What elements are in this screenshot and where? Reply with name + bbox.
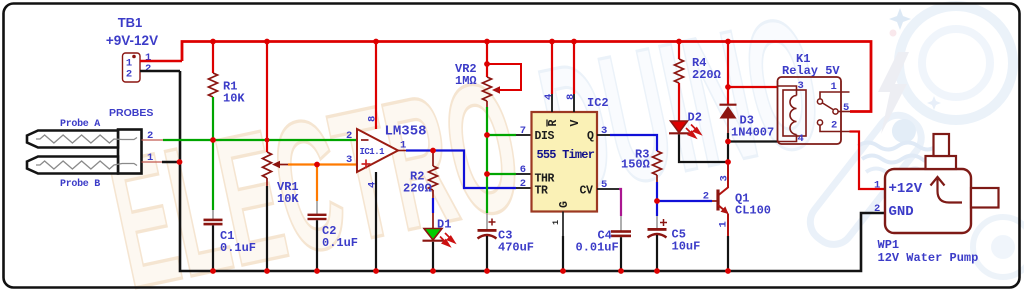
svg-text:1N4007: 1N4007: [731, 126, 774, 140]
capacitor C5: [648, 219, 701, 271]
diode D3 1N4007: [720, 87, 775, 140]
LED D1: [423, 218, 455, 272]
svg-text:555 Timer: 555 Timer: [537, 148, 595, 162]
wire 555 pin4 to +V: [551, 42, 553, 95]
wire +V to D3: [727, 42, 729, 88]
wire D3 anode to coil pin4 and collector node: [727, 133, 729, 162]
capacitor C1: [204, 219, 257, 271]
svg-text:2: 2: [126, 69, 132, 81]
svg-text:CV: CV: [580, 185, 594, 198]
wire node to C5: [656, 201, 658, 216]
svg-text:Probe A: Probe A: [60, 118, 100, 130]
svg-text:1: 1: [551, 220, 561, 225]
LED D2: [669, 111, 702, 138]
wire probe pin2: [142, 139, 165, 141]
svg-text:WP1: WP1: [878, 238, 900, 252]
svg-text:R: R: [547, 120, 560, 127]
wire op-amp output pin1: [398, 150, 406, 152]
node probe sense net junctions: [177, 137, 270, 165]
svg-text:0.1uF: 0.1uF: [322, 236, 358, 250]
svg-text:10K: 10K: [223, 92, 245, 106]
wire D3 node to relay coil pin3: [728, 86, 778, 88]
wire threshold net green vertical: [486, 107, 488, 213]
wire Q1 emitter to ground: [727, 236, 729, 271]
svg-text:+9V-12V: +9V-12V: [106, 33, 158, 48]
terminal block TB1: [106, 15, 158, 82]
IC2 555 timer: [520, 94, 609, 236]
wire D2 cathode to Q1 collector node: [679, 134, 728, 162]
wire 555 pin1 to ground: [562, 236, 564, 271]
svg-text:Q: Q: [587, 130, 594, 143]
svg-text:7: 7: [520, 125, 526, 137]
svg-text:1: 1: [831, 81, 837, 93]
svg-text:1MΩ: 1MΩ: [455, 74, 477, 88]
svg-text:4: 4: [798, 133, 804, 145]
svg-text:0.01uF: 0.01uF: [576, 241, 619, 255]
wire +V top rail: [182, 42, 871, 112]
wire ground bottom rail: [180, 71, 885, 271]
wire tap to DIS pin7: [487, 134, 516, 136]
svg-text:4: 4: [543, 94, 555, 100]
svg-text:2: 2: [874, 203, 880, 215]
svg-text:3: 3: [346, 154, 352, 166]
svg-text:Probe B: Probe B: [60, 178, 100, 190]
svg-text:8: 8: [565, 94, 577, 100]
wire 555 Q pin3 to R3: [597, 134, 610, 136]
wire 555 CV pin5 to C4: [597, 188, 619, 190]
svg-text:2: 2: [145, 63, 151, 75]
svg-text:D2: D2: [688, 111, 702, 125]
svg-text:Relay 5V: Relay 5V: [782, 64, 840, 78]
junctions on ground rail net: [210, 268, 731, 274]
watermark text ELECTRODUINO: [95, 0, 836, 293]
capacitor C2: [308, 201, 359, 271]
wire probe net green: [163, 139, 357, 141]
svg-text:220Ω: 220Ω: [403, 182, 432, 196]
transistor Q1 CL100: [703, 162, 771, 236]
svg-text:DIS: DIS: [535, 130, 555, 143]
svg-text:10K: 10K: [277, 192, 299, 206]
svg-text:1: 1: [874, 180, 880, 192]
svg-text:3: 3: [798, 80, 804, 92]
svg-text:220Ω: 220Ω: [692, 68, 721, 82]
svg-text:10uF: 10uF: [672, 240, 701, 254]
svg-text:2: 2: [831, 120, 837, 132]
potentiometer VR2: [455, 42, 521, 108]
potentiometer VR1: [263, 42, 300, 272]
svg-text:+12V: +12V: [889, 181, 923, 197]
svg-text:6: 6: [520, 164, 526, 176]
contacts: [820, 92, 850, 99]
wire TB1 pin2 to ground: [140, 70, 180, 73]
wire R2 to D1: [432, 198, 434, 213]
svg-text:150Ω: 150Ω: [621, 158, 650, 172]
node VR1 wiper junction: [314, 162, 320, 168]
capacitor C4: [576, 229, 632, 272]
wire TB1 pin1 to +V rail: [140, 60, 182, 63]
node op-amp output junction: [430, 148, 436, 154]
wire tap to THR pin6: [487, 173, 516, 175]
svg-text:V: V: [569, 120, 582, 127]
wire probe pin1: [142, 161, 163, 163]
svg-text:D1: D1: [437, 218, 451, 232]
coil: [783, 90, 806, 136]
wire green probe net down to C1: [212, 140, 214, 210]
resistor R2: [403, 151, 438, 199]
svg-text:IC1.1: IC1.1: [360, 147, 386, 157]
wire node to Q1 base: [657, 200, 712, 202]
wire op-amp pin8 to +V: [375, 42, 377, 130]
wire relay pin2 to pump: [850, 132, 886, 190]
relay K1: [778, 52, 851, 145]
svg-text:3: 3: [719, 175, 731, 181]
svg-text:1: 1: [718, 221, 730, 227]
svg-text:G: G: [558, 201, 571, 208]
probes connector PROBES: [27, 107, 153, 190]
svg-text:CL100: CL100: [735, 204, 771, 218]
resistor R3: [621, 148, 662, 183]
svg-text:2: 2: [520, 178, 526, 190]
svg-text:2: 2: [703, 191, 709, 203]
capacitor C3: [478, 213, 535, 271]
resistor R4: [675, 42, 721, 121]
svg-text:5: 5: [843, 102, 849, 114]
resistor R1: [209, 42, 246, 141]
svg-text:470uF: 470uF: [498, 241, 534, 255]
svg-text:PROBES: PROBES: [109, 107, 153, 119]
op-amp U1 LM358 IC1.1: [346, 116, 427, 188]
wire op-amp pin4 to ground: [375, 172, 377, 271]
node Q1 collector junctions: [725, 139, 731, 165]
probe A body: [27, 131, 118, 148]
svg-text:IC2: IC2: [587, 96, 609, 110]
svg-text:0.1uF: 0.1uF: [220, 241, 256, 255]
wire R3 to node: [656, 182, 658, 201]
water pump WP1: [874, 134, 999, 265]
wire VR1 wiper orange: [288, 163, 357, 165]
svg-text:TR: TR: [535, 185, 549, 198]
node Q1 base junction: [654, 198, 660, 204]
svg-text:TB1: TB1: [118, 15, 143, 30]
svg-text:GND: GND: [889, 204, 914, 220]
svg-text:LM358: LM358: [385, 124, 427, 140]
svg-text:12V Water Pump: 12V Water Pump: [878, 251, 979, 265]
wire 555 pin8 to +V: [573, 42, 575, 95]
node threshold net junctions: [484, 132, 490, 177]
probe B body: [27, 157, 118, 174]
watermark logo top right: [802, 6, 1024, 277]
junctions on +V rail net: [210, 39, 731, 90]
svg-text:2: 2: [346, 130, 352, 142]
